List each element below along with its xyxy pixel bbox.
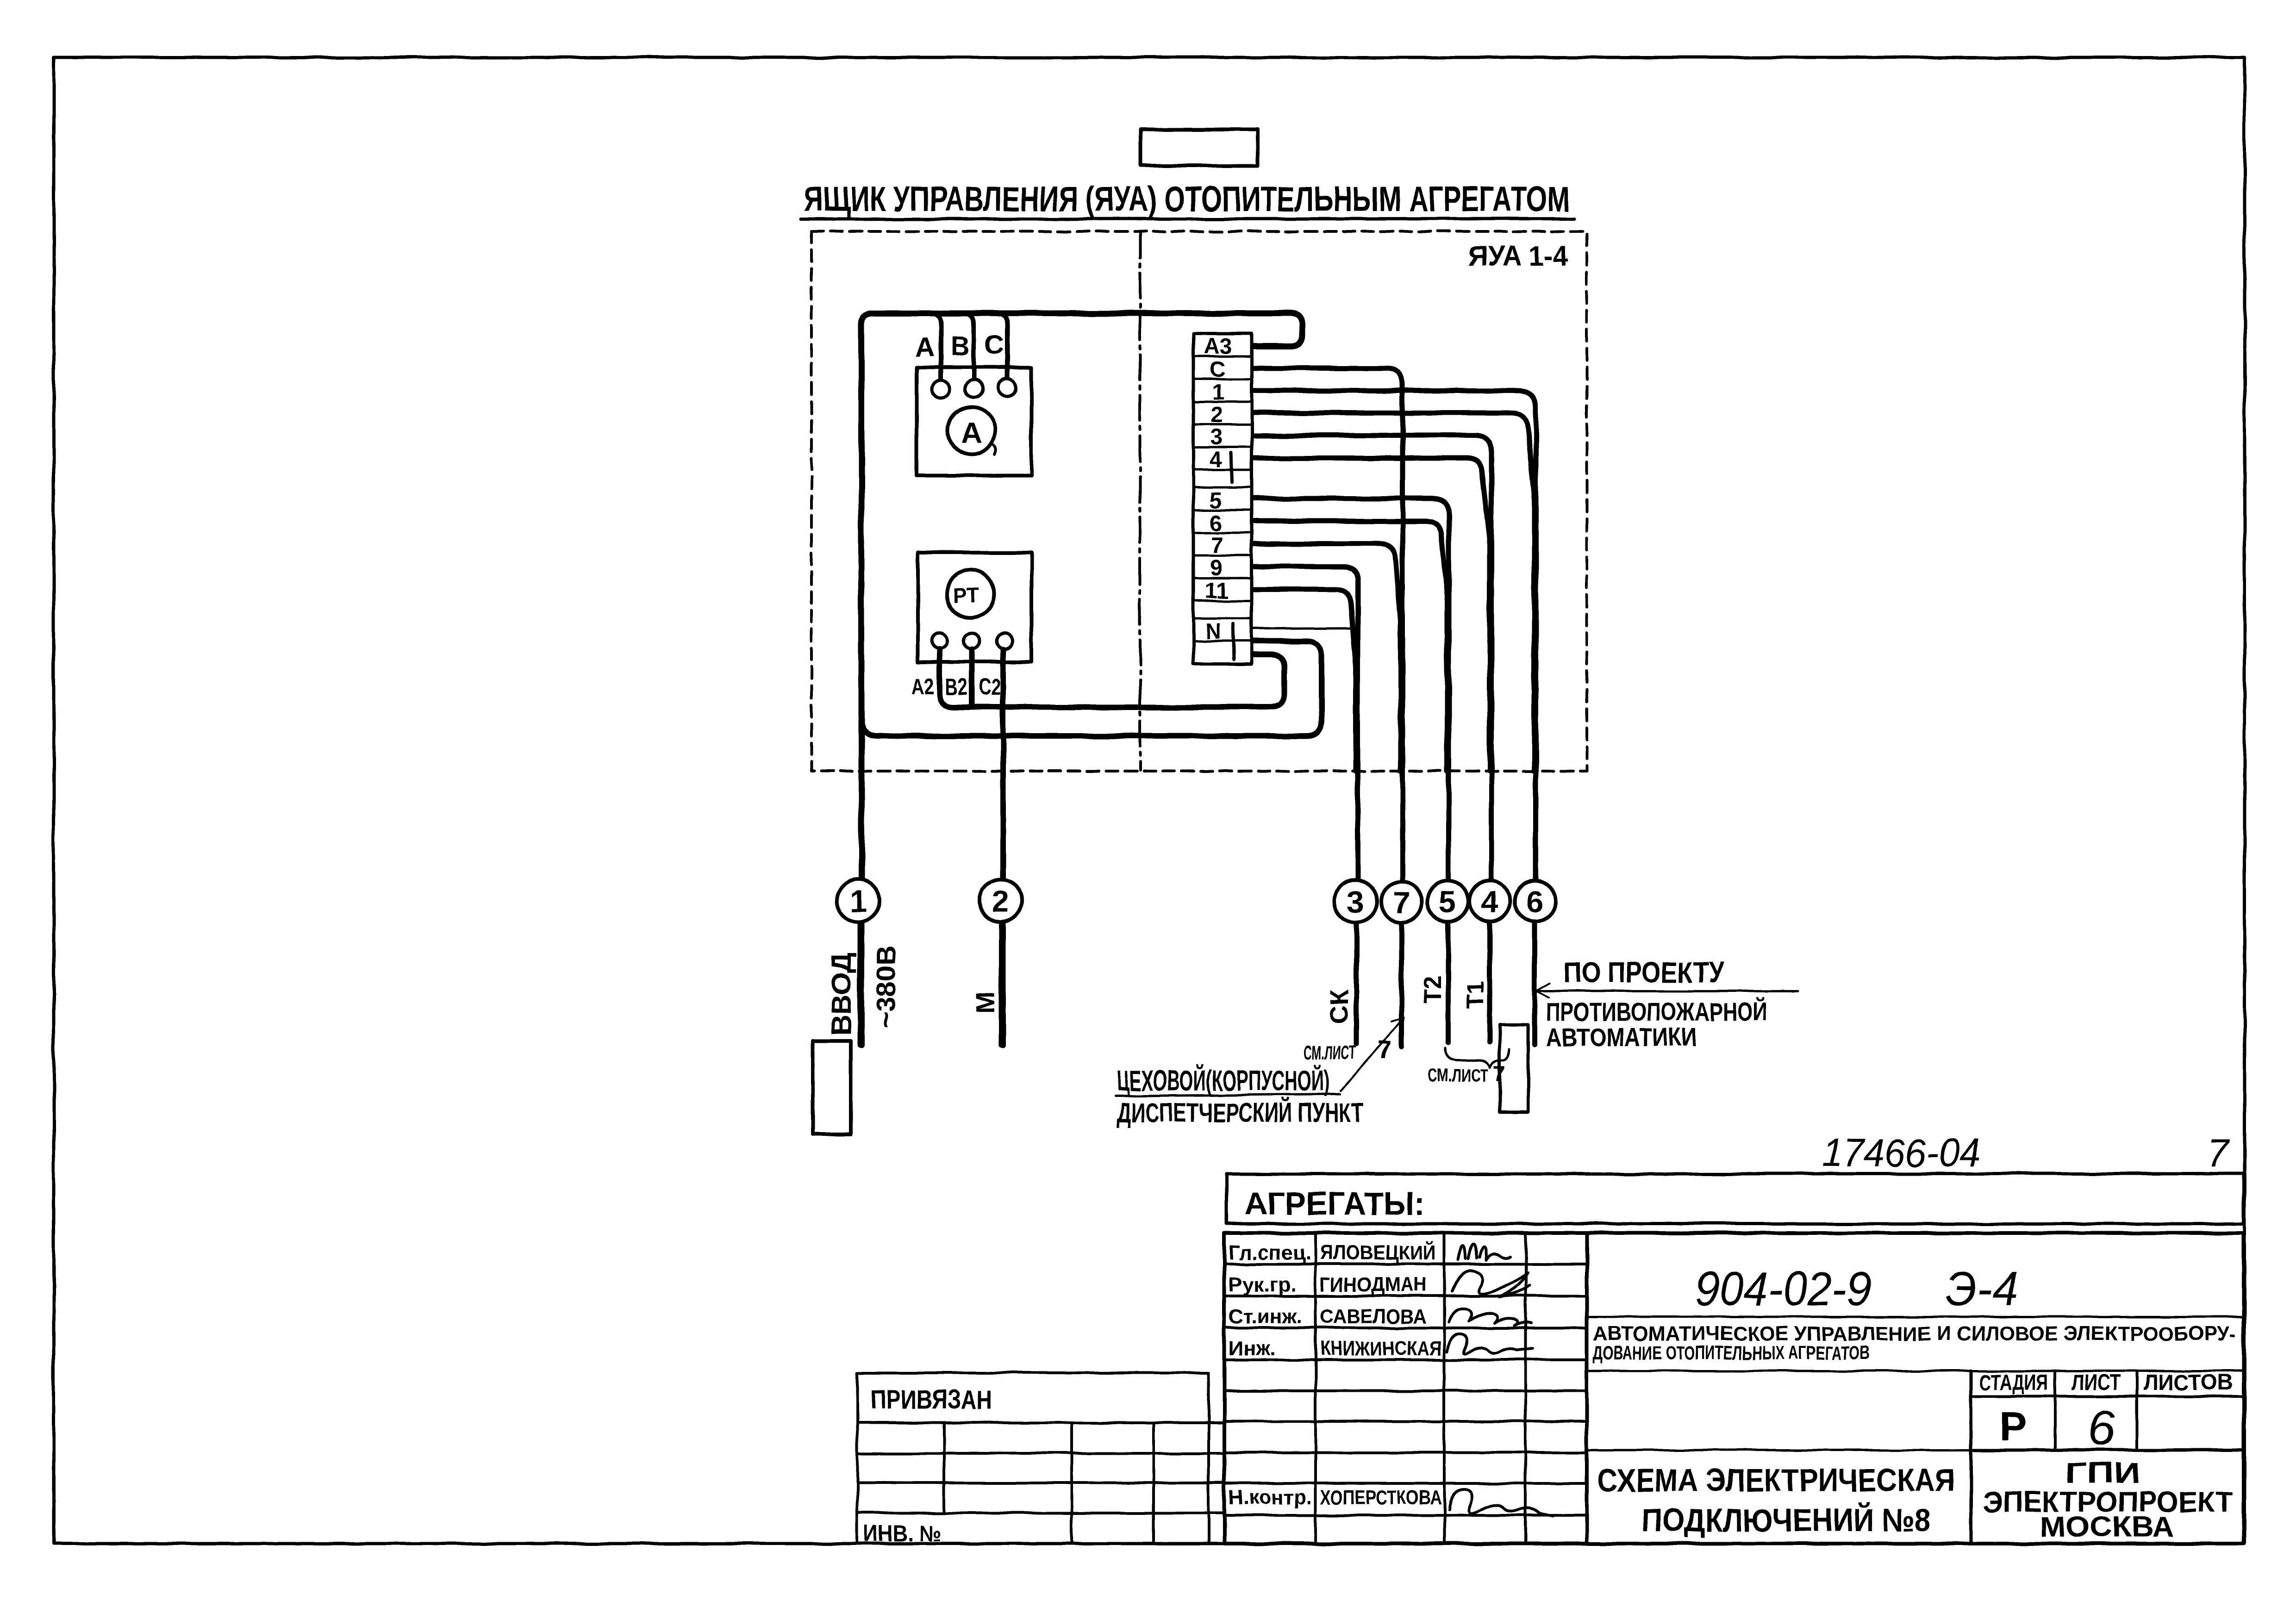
- wire from A2 to terminal strip below N (inner loop): [940, 649, 1285, 707]
- svg-text:3: 3: [1210, 425, 1223, 449]
- stage sheet boxes: [1587, 1370, 2244, 1544]
- svg-text:ДИСПЕТЧЕРСКИЙ ПУНКТ: ДИСПЕТЧЕРСКИЙ ПУНКТ: [1117, 1098, 1363, 1128]
- left cable end rectangle: [813, 1041, 851, 1134]
- svg-text:904-02-9: 904-02-9: [1695, 1262, 1871, 1316]
- svg-text:5: 5: [1439, 884, 1456, 919]
- svg-text:ПРОТИВОПОЖАРНОЙ: ПРОТИВОПОЖАРНОЙ: [1546, 997, 1767, 1026]
- wire: drop C from bus: [998, 313, 1007, 379]
- svg-text:С: С: [1209, 357, 1225, 382]
- relay PT dial: [946, 570, 994, 618]
- cable 3 drop below box: [1356, 771, 1358, 1044]
- svg-text:Р: Р: [2000, 1403, 2027, 1449]
- wire row 5 to cable 5: [1253, 498, 1449, 771]
- svg-text:СХЕМА ЭЛЕКТРИЧЕСКАЯ: СХЕМА ЭЛЕКТРИЧЕСКАЯ: [1597, 1462, 1955, 1498]
- binding table: [857, 1373, 1224, 1546]
- svg-text:РТ: РТ: [952, 583, 979, 607]
- svg-text:А: А: [915, 332, 935, 362]
- cable marker circle 7: [1381, 882, 1422, 922]
- enclosure divider dash-dot line: [1139, 232, 1142, 770]
- organization name: [1983, 1457, 2233, 1543]
- svg-text:ЯУА 1-4: ЯУА 1-4: [1468, 240, 1568, 272]
- wire row 9 to cable 3: [1253, 567, 1358, 771]
- PT terminal A2: [932, 633, 948, 648]
- wire row N thin link: [1253, 628, 1356, 629]
- svg-text:4: 4: [1481, 884, 1498, 919]
- svg-text:Т2: Т2: [1419, 975, 1446, 1003]
- ammeter box: [917, 367, 1031, 475]
- svg-text:ЛИСТОВ: ЛИСТОВ: [2143, 1370, 2233, 1395]
- handwritten page 7: [2207, 1132, 2230, 1175]
- rotated label T1: [1462, 981, 1489, 1009]
- cable marker circle 6: [1515, 881, 1555, 922]
- wire from C2 down to cable 2: [1000, 650, 1006, 1045]
- rotated label M: [971, 992, 1000, 1014]
- svg-text:2: 2: [1210, 403, 1223, 427]
- svg-text:ГИНОДМАН: ГИНОДМАН: [1320, 1273, 1427, 1296]
- svg-text:ВВОД: ВВОД: [826, 953, 857, 1036]
- svg-text:17466-04: 17466-04: [1822, 1131, 1980, 1175]
- svg-text:1: 1: [850, 884, 867, 918]
- svg-text:СМ.ЛИСТ: СМ.ЛИСТ: [1428, 1065, 1488, 1086]
- wire stub from B2 joining A2 run: [969, 649, 974, 705]
- svg-text:ЯЩИК УПРАВЛЕНИЯ (ЯУА) ОТОПИТЕЛ: ЯЩИК УПРАВЛЕНИЯ (ЯУА) ОТОПИТЕЛЬНЫМ АГРЕГ…: [804, 180, 1570, 219]
- svg-text:7: 7: [1210, 533, 1223, 558]
- rotated label T2: [1419, 975, 1446, 1003]
- note see sheet 7 near cable 7: [1304, 1036, 1391, 1064]
- wire row 7 to cable 7: [1253, 544, 1401, 771]
- phase labels A B C: [915, 330, 1004, 362]
- wire: drop A from bus: [931, 313, 941, 380]
- note see sheet 7 under brace: [1428, 1062, 1506, 1086]
- svg-text:1: 1: [1212, 380, 1224, 405]
- svg-text:СК: СК: [1324, 989, 1354, 1024]
- relay PT box: [918, 553, 1031, 662]
- svg-text:ГПИ: ГПИ: [2065, 1457, 2140, 1489]
- svg-text:ПО ПРОЕКТУ: ПО ПРОЕКТУ: [1564, 957, 1724, 989]
- right cable end rectangle: [1500, 1025, 1528, 1112]
- svg-text:7: 7: [2207, 1132, 2230, 1175]
- svg-text:7: 7: [1393, 885, 1410, 920]
- svg-text:ХОПЕРСТКОВА: ХОПЕРСТКОВА: [1320, 1486, 1441, 1509]
- ammeter terminal C: [998, 379, 1016, 396]
- svg-text:6: 6: [1210, 511, 1222, 536]
- title block outline: [1224, 1233, 2244, 1544]
- svg-text:АВТОМАТИКИ: АВТОМАТИКИ: [1546, 1022, 1697, 1052]
- svg-text:~380В: ~380В: [871, 945, 901, 1028]
- ammeter terminal A: [932, 380, 949, 398]
- signature table labels: [1229, 1240, 1441, 1509]
- wire: main feeder L1 with top bus and hook to terminal A3: [861, 313, 1302, 1045]
- project title two lines: [1587, 1317, 2244, 1371]
- signature table grid: [1224, 1233, 1587, 1544]
- ammeter A dial: [948, 407, 996, 455]
- drawing title: [801, 180, 1574, 219]
- svg-text:ЛИСТ: ЛИСТ: [2071, 1370, 2121, 1395]
- svg-text:N: N: [1205, 619, 1222, 644]
- svg-text:С: С: [985, 330, 1004, 360]
- svg-text:Т1: Т1: [1462, 981, 1489, 1009]
- wire row 4 to cable 4: [1253, 458, 1490, 771]
- svg-text:ДОВАНИЕ ОТОПИТЕЛЬНЫХ АГРЕГАТОВ: ДОВАНИЕ ОТОПИТЕЛЬНЫХ АГРЕГАТОВ: [1593, 1342, 1870, 1364]
- svg-text:9: 9: [1210, 556, 1222, 580]
- svg-text:АГРЕГАТЫ:: АГРЕГАТЫ:: [1244, 1185, 1425, 1221]
- svg-text:А3: А3: [1204, 334, 1232, 359]
- svg-text:СМ.ЛИСТ: СМ.ЛИСТ: [1304, 1041, 1356, 1063]
- rotated label CK: [1324, 989, 1354, 1024]
- cable marker circle 2: [980, 879, 1022, 922]
- svg-text:Гл.спец.: Гл.спец.: [1229, 1241, 1311, 1264]
- wire: branch from feeder to terminal N (outer loop): [861, 641, 1322, 736]
- svg-text:А: А: [961, 416, 982, 449]
- svg-text:Рук.гр.: Рук.гр.: [1229, 1273, 1296, 1296]
- cable 1 drop below box: [860, 771, 861, 1045]
- svg-text:3: 3: [1347, 884, 1364, 919]
- svg-text:11: 11: [1204, 579, 1228, 603]
- svg-text:ПРИВЯЗАН: ПРИВЯЗАН: [870, 1385, 992, 1415]
- wire row 3 to cable 4: [1253, 436, 1491, 771]
- wire row C to cable 7: [1253, 368, 1403, 771]
- ammeter terminal B: [965, 380, 983, 398]
- rotated label ВВОД: [826, 953, 857, 1036]
- svg-text:М: М: [971, 992, 1000, 1014]
- wire row 11 to cable 3: [1253, 589, 1356, 771]
- svg-text:Н.контр.: Н.контр.: [1229, 1486, 1312, 1509]
- svg-text:Э-4: Э-4: [1945, 1262, 2018, 1316]
- svg-text:МОСКВА: МОСКВА: [2040, 1511, 2174, 1543]
- wire row 2 to cable 6: [1253, 413, 1534, 771]
- signature squiggles: [1447, 1244, 1553, 1516]
- label dispatch point: [1115, 1065, 1363, 1128]
- handwritten doc number 17466-04: [1822, 1131, 1980, 1175]
- scheme name: [1597, 1462, 1955, 1538]
- enclosure label ЯУА1-4: [1468, 240, 1568, 272]
- rotated label ~380V: [871, 945, 901, 1028]
- svg-text:САВЕЛОВА: САВЕЛОВА: [1320, 1305, 1427, 1328]
- PT terminal C2: [997, 634, 1012, 649]
- cable 4 drop below box: [1490, 771, 1491, 1042]
- wire row 1 to cable 6: [1253, 391, 1536, 771]
- cable 2 drop below box: [1001, 771, 1003, 1045]
- cable marker circle 5: [1428, 881, 1468, 922]
- cable 7 drop below box: [1402, 771, 1403, 1046]
- svg-text:С2: С2: [979, 674, 1001, 700]
- svg-text:ЦЕХОВОЙ(КОРПУСНОЙ): ЦЕХОВОЙ(КОРПУСНОЙ): [1117, 1065, 1330, 1097]
- svg-text:5: 5: [1210, 488, 1222, 513]
- brace under cables 5 and 4: [1445, 1048, 1510, 1067]
- wire row 6 to cable 5: [1253, 521, 1447, 771]
- svg-text:В2: В2: [945, 674, 967, 700]
- PT terminal B2: [964, 633, 980, 649]
- cable marker circle 1: [837, 879, 880, 922]
- cable 6 drop below box: [1535, 771, 1536, 1045]
- doc number 904-02-9 Э-4: [1695, 1262, 2018, 1316]
- svg-text:ПОДКЛЮЧЕНИЙ №8: ПОДКЛЮЧЕНИЙ №8: [1641, 1501, 1931, 1538]
- svg-text:6: 6: [1526, 884, 1543, 919]
- svg-text:ИНВ. №: ИНВ. №: [864, 1520, 942, 1546]
- svg-text:4: 4: [1210, 448, 1222, 472]
- svg-text:2: 2: [992, 884, 1009, 918]
- cable 5 drop below box: [1448, 771, 1449, 1042]
- units box: [1227, 1174, 2244, 1224]
- svg-text:КНИЖИНСКАЯ: КНИЖИНСКАЯ: [1320, 1337, 1441, 1360]
- cable marker circle 4: [1469, 881, 1510, 922]
- terminal strip body: [1193, 334, 1252, 664]
- labels A2 B2 C2: [912, 673, 1001, 700]
- cable marker circle 3: [1335, 880, 1377, 922]
- empty stamp rectangle top center: [1141, 130, 1258, 166]
- svg-text:А2: А2: [912, 673, 934, 699]
- label fire automation project: [1536, 957, 1798, 1052]
- svg-text:7: 7: [1493, 1062, 1506, 1086]
- svg-text:6: 6: [2088, 1400, 2116, 1456]
- svg-text:Инж.: Инж.: [1229, 1337, 1276, 1360]
- terminal labels A3 C 1 2 3 4 5 6 7 9 11 N: [1204, 334, 1234, 659]
- svg-text:СТАДИЯ: СТАДИЯ: [1979, 1370, 2048, 1395]
- wire: drop B from bus: [965, 313, 974, 380]
- svg-text:В: В: [950, 331, 970, 361]
- svg-text:Ст.инж.: Ст.инж.: [1229, 1305, 1302, 1328]
- svg-text:ЯЛОВЕЦКИЙ: ЯЛОВЕЦКИЙ: [1320, 1240, 1436, 1264]
- leader line to cable 7: [1341, 1017, 1404, 1091]
- dashed enclosure box ЯУА: [811, 231, 1587, 771]
